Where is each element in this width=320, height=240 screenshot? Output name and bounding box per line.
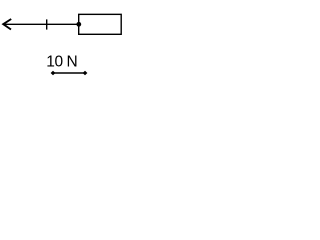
- scale bar line: [53, 72, 85, 74]
- node: force application point (dot): [76, 22, 81, 27]
- block (box): [79, 14, 122, 34]
- tick mark on arrow shaft: [46, 19, 48, 29]
- arrowhead (left-pointing chevron): [3, 19, 11, 30]
- scale bar left diamond: [51, 71, 56, 76]
- wire: force arrow shaft: [4, 23, 77, 25]
- svg-text:10 N: 10 N: [46, 53, 77, 70]
- scale bar right diamond: [83, 71, 88, 76]
